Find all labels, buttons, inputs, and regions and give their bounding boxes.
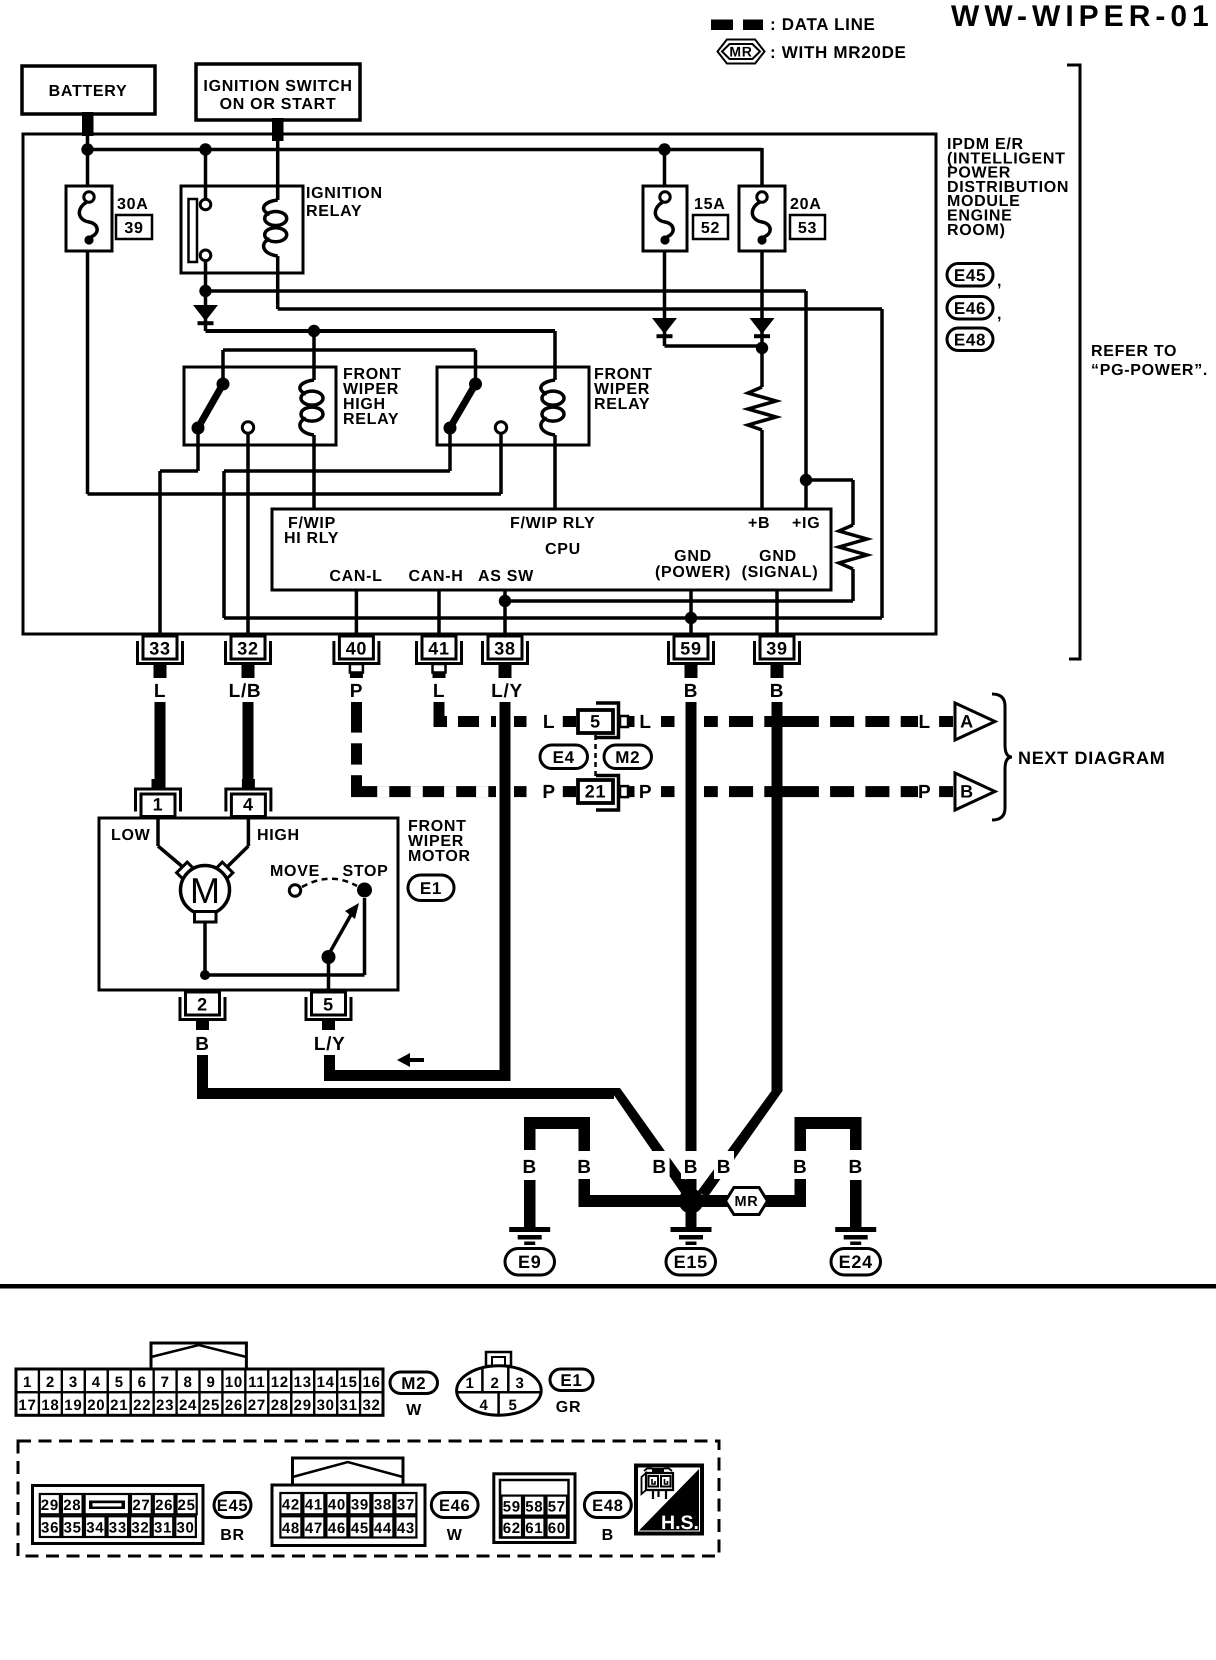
svg-text:5: 5	[115, 1374, 124, 1391]
svg-text:(POWER): (POWER)	[655, 564, 731, 581]
svg-text:P: P	[542, 782, 555, 803]
svg-text:26: 26	[155, 1497, 173, 1514]
motor pin 4 stub	[242, 779, 255, 790]
svg-text:48: 48	[282, 1520, 300, 1537]
svg-text:E15: E15	[674, 1252, 708, 1272]
dashed connector divider	[594, 735, 597, 780]
wire relay switch common bus	[223, 350, 476, 384]
svg-text:NEXT DIAGRAM: NEXT DIAGRAM	[1018, 748, 1165, 768]
IPDM pin 40	[334, 636, 379, 664]
IPDM E/R box	[23, 134, 936, 634]
arrow A to next diagram	[939, 703, 995, 740]
svg-text:B: B	[684, 1157, 698, 1178]
svg-text:4: 4	[243, 795, 254, 815]
svg-text:40: 40	[346, 639, 367, 659]
H.S. mark	[636, 1466, 702, 1535]
svg-text:13: 13	[294, 1374, 312, 1391]
wire E15 stub	[686, 1207, 697, 1227]
svg-text:MOTOR: MOTOR	[408, 848, 471, 865]
svg-text:32: 32	[237, 639, 258, 659]
IPDM pin 33	[138, 636, 183, 664]
motor pin 2	[180, 992, 225, 1020]
fuse 20A	[739, 186, 785, 251]
wire R1 to +B	[760, 430, 764, 510]
svg-text:E46: E46	[439, 1497, 470, 1515]
data line P dash	[514, 786, 527, 797]
svg-text:LOW: LOW	[111, 827, 151, 844]
svg-text:39: 39	[124, 220, 143, 237]
svg-text:P: P	[639, 782, 652, 803]
motor M1	[177, 862, 233, 922]
svg-text:31: 31	[340, 1397, 358, 1414]
front wiper relay label	[594, 366, 653, 413]
svg-text:52: 52	[701, 220, 720, 237]
svg-text:WW-WIPER-01: WW-WIPER-01	[951, 0, 1214, 33]
svg-text:25: 25	[202, 1397, 220, 1414]
wire fuse 15A output	[663, 251, 667, 346]
data line P horizontal	[351, 786, 496, 797]
pin 33 stub	[154, 664, 167, 678]
svg-text:L/B: L/B	[229, 681, 262, 702]
svg-text:39: 39	[766, 639, 787, 659]
svg-text:IGNITION SWITCH: IGNITION SWITCH	[203, 78, 352, 95]
ground E15	[666, 1227, 716, 1275]
wire label P after connector	[639, 782, 652, 803]
connector E4 oval	[540, 745, 588, 769]
svg-text:AS SW: AS SW	[478, 568, 534, 585]
wire B pin39 down	[698, 702, 783, 1198]
node AS SW junction	[499, 595, 511, 607]
svg-text:42: 42	[282, 1497, 300, 1514]
wire label L/Y motor	[314, 1034, 346, 1055]
fuse 20A label	[790, 196, 821, 213]
wire label L/B	[229, 681, 262, 702]
wire label B ground	[790, 1151, 810, 1179]
wire ignition relay contact output	[204, 260, 208, 331]
svg-text:7: 7	[161, 1374, 170, 1391]
svg-text:37: 37	[397, 1497, 415, 1514]
svg-text:B: B	[848, 1157, 862, 1178]
wire label L	[543, 712, 555, 733]
front wiper relay	[437, 367, 589, 445]
wire label B ground	[681, 1151, 701, 1179]
legend with MR20DE text	[770, 43, 907, 62]
data line L dash	[514, 716, 527, 727]
wire L/Y motor pin5	[324, 1055, 505, 1081]
wire front relay NC to ground bus	[224, 434, 882, 618]
svg-text:24: 24	[179, 1397, 197, 1414]
node +B net	[756, 342, 768, 354]
svg-text:IGNITION: IGNITION	[306, 185, 383, 202]
svg-text:+IG: +IG	[792, 515, 820, 532]
wire L/B pin32 to motor pin 4	[243, 702, 254, 790]
ignition relay label	[306, 185, 383, 220]
IPDM pin 41	[417, 636, 462, 664]
svg-text:34: 34	[86, 1520, 104, 1537]
svg-text:23: 23	[156, 1397, 174, 1414]
svg-text:B: B	[602, 1527, 614, 1544]
svg-text:E4: E4	[553, 748, 575, 767]
svg-text:GND: GND	[674, 548, 712, 565]
svg-text:RELAY: RELAY	[343, 411, 399, 428]
arrow B to next diagram	[939, 773, 995, 810]
legend data line text	[770, 15, 876, 34]
connector view M2 grid	[16, 1343, 383, 1415]
svg-text:61: 61	[525, 1520, 543, 1537]
wire label P	[542, 782, 555, 803]
svg-text:17: 17	[18, 1397, 36, 1414]
svg-text:ON OR START: ON OR START	[220, 96, 337, 113]
IPDM pin 59	[669, 636, 714, 664]
svg-text:B: B	[770, 681, 784, 702]
svg-text:1: 1	[153, 795, 164, 815]
front wiper motor label	[408, 818, 471, 865]
wire ignition switch to relay coil	[276, 138, 280, 200]
svg-text:GND: GND	[759, 548, 797, 565]
diode D3	[750, 318, 775, 336]
svg-text:(SIGNAL): (SIGNAL)	[742, 564, 819, 581]
wire label P before arrow B	[918, 782, 931, 803]
svg-text:E45: E45	[954, 266, 986, 285]
park switch dashed arc	[302, 879, 357, 887]
node ground junction	[679, 1189, 704, 1214]
ignition switch stub	[272, 118, 284, 141]
wire B pin59 down to ground junction	[686, 702, 697, 1195]
wire GND POWER to pin 59	[689, 590, 693, 636]
wire label B ground	[714, 1151, 734, 1179]
svg-text:41: 41	[305, 1497, 323, 1514]
svg-text:MR: MR	[735, 1194, 759, 1210]
svg-text:16: 16	[362, 1374, 380, 1391]
node ignition relay branch	[199, 143, 211, 155]
svg-text:45: 45	[351, 1520, 369, 1537]
connector view E1	[456, 1352, 542, 1416]
motor pin 2 stub	[196, 1018, 209, 1030]
svg-text:M2: M2	[615, 748, 640, 767]
svg-text:B: B	[960, 782, 974, 802]
connector E46 label	[431, 1493, 478, 1545]
motor pin 1 stub	[152, 779, 165, 790]
svg-text:29: 29	[41, 1497, 59, 1514]
svg-text:E9: E9	[518, 1252, 541, 1272]
svg-text:41: 41	[428, 639, 449, 659]
node battery bus junction	[81, 143, 93, 155]
svg-text:47: 47	[305, 1520, 323, 1537]
connector E45 label	[214, 1493, 251, 1545]
svg-text:27: 27	[132, 1497, 150, 1514]
wire park switch to pin 5	[327, 957, 331, 992]
svg-text:E46: E46	[954, 299, 986, 318]
wire motor to pin 2 net	[205, 898, 365, 975]
svg-text:30A: 30A	[117, 196, 148, 213]
refer-to bracket	[1067, 65, 1080, 659]
svg-text:20: 20	[87, 1397, 105, 1414]
svg-text:B: B	[684, 681, 698, 702]
svg-text:H.S.: H.S.	[661, 1512, 699, 1534]
svg-text:W: W	[447, 1527, 463, 1544]
connector view E45	[33, 1486, 204, 1544]
svg-text:MR: MR	[729, 44, 752, 60]
svg-text:CAN-L: CAN-L	[329, 568, 382, 585]
node +IG resistor branch	[800, 474, 812, 486]
legend data-line symbol	[711, 20, 763, 31]
svg-text:15A: 15A	[694, 196, 725, 213]
wire label L/Y	[491, 681, 523, 702]
legend MR hexagon	[718, 40, 765, 64]
svg-text:L: L	[543, 712, 555, 733]
svg-text:M: M	[190, 870, 220, 911]
title WW-WIPER-01	[951, 0, 1214, 33]
svg-text:B: B	[717, 1157, 731, 1178]
svg-text:5: 5	[508, 1397, 517, 1414]
IPDM pin 38	[483, 636, 528, 664]
svg-text:B: B	[195, 1034, 209, 1055]
connector view E46	[272, 1458, 425, 1546]
svg-text:HIGH: HIGH	[257, 827, 300, 844]
svg-text:GR: GR	[556, 1399, 581, 1416]
wire L/Y pin38 down	[500, 702, 511, 1081]
data line P stub into connector 21	[563, 786, 576, 797]
svg-text:5: 5	[323, 995, 334, 1015]
connector E48 oval	[947, 328, 993, 351]
motor pin 4	[226, 789, 271, 817]
ignition relay	[181, 186, 303, 273]
wire L pin33 to motor pin 1	[155, 702, 166, 790]
pin 40 data stub	[350, 664, 363, 678]
next diagram brace	[992, 694, 1012, 820]
wire CAN-H to pin 41	[437, 590, 441, 636]
data line L dashes to arrow A	[661, 716, 918, 727]
svg-text:59: 59	[503, 1499, 521, 1516]
svg-text:57: 57	[548, 1499, 566, 1516]
svg-text:L: L	[919, 712, 931, 733]
wire label B ground	[650, 1151, 670, 1179]
svg-text:E48: E48	[954, 330, 986, 349]
svg-text:2: 2	[490, 1375, 499, 1392]
park switch STOP contact	[357, 883, 372, 898]
MOVE STOP labels	[270, 863, 389, 880]
wire ignition relay coil return	[278, 256, 882, 618]
svg-text:E24: E24	[839, 1252, 873, 1272]
svg-text:28: 28	[271, 1397, 289, 1414]
front wiper high relay label	[343, 366, 402, 428]
wire pin4 to motor brush	[226, 816, 248, 868]
svg-text:28: 28	[63, 1497, 81, 1514]
svg-text:A: A	[960, 712, 974, 732]
pin 41 data stub	[433, 664, 446, 678]
svg-text:CPU: CPU	[545, 541, 581, 558]
node GND(POWER) junction	[685, 612, 697, 624]
svg-text:46: 46	[328, 1520, 346, 1537]
svg-text:43: 43	[397, 1520, 415, 1537]
fuse 30A label	[117, 196, 148, 213]
svg-text:3: 3	[69, 1374, 78, 1391]
wire label B	[770, 681, 784, 702]
wire label L after connector	[639, 712, 651, 733]
svg-text:26: 26	[225, 1397, 243, 1414]
svg-text:59: 59	[680, 639, 701, 659]
svg-text:14: 14	[317, 1374, 335, 1391]
wire label B ground	[575, 1151, 595, 1179]
svg-text:44: 44	[374, 1520, 392, 1537]
battery	[22, 66, 155, 114]
svg-text:F/WIP RLY: F/WIP RLY	[510, 515, 595, 532]
ground E24	[831, 1227, 881, 1275]
next diagram text	[1018, 748, 1165, 768]
resistor R2	[839, 525, 867, 569]
ignition switch	[196, 64, 360, 120]
connector E1 label	[550, 1369, 593, 1416]
fuse number 39 box	[116, 215, 152, 239]
svg-text:12: 12	[271, 1374, 289, 1391]
data line P (CAN-L) vertical	[351, 702, 362, 797]
ground E24 branch	[795, 1117, 862, 1229]
resistor R1	[748, 387, 776, 430]
svg-text:4: 4	[92, 1374, 101, 1391]
svg-text:1: 1	[465, 1375, 474, 1392]
diode D1	[193, 305, 218, 323]
wire AS SW to pin 38	[503, 590, 507, 636]
svg-text:31: 31	[154, 1520, 172, 1537]
connector E1 oval	[408, 875, 454, 901]
svg-text:30: 30	[177, 1520, 195, 1537]
connector 5 output stub	[620, 716, 635, 727]
node fuse 15A branch	[658, 143, 670, 155]
node high relay coil branch	[308, 325, 320, 337]
svg-text:RELAY: RELAY	[594, 396, 650, 413]
wire label P	[350, 681, 363, 702]
svg-text:58: 58	[525, 1499, 543, 1516]
node park switch arm	[322, 950, 336, 964]
wire to high relay coil	[312, 331, 316, 380]
svg-text:5: 5	[590, 712, 601, 732]
svg-text:10: 10	[225, 1374, 243, 1391]
separator line	[0, 1284, 1216, 1289]
MR hexagon tag	[726, 1188, 768, 1215]
IPDM pin 39	[755, 636, 800, 664]
connector 21 output stub	[620, 786, 635, 797]
connector 21 pass-through	[578, 776, 619, 811]
svg-text:21: 21	[110, 1397, 128, 1414]
svg-text:BATTERY: BATTERY	[49, 83, 128, 100]
svg-text:11: 11	[248, 1374, 265, 1391]
pin 59 stub	[685, 664, 698, 678]
fuse 30A	[66, 186, 112, 251]
wire B motor pin2 to ground	[197, 1055, 697, 1203]
fuse 15A	[643, 186, 687, 251]
svg-text:B: B	[793, 1157, 807, 1178]
wire battery to fuse 30A	[86, 134, 90, 186]
connector E46 oval	[947, 297, 1002, 324]
wire high relay NO to pin 32	[246, 433, 250, 636]
svg-text:3: 3	[515, 1375, 524, 1392]
motor pin 5 stub	[322, 1018, 335, 1030]
ground E9	[505, 1227, 555, 1275]
connector M2 label	[390, 1372, 438, 1419]
svg-text:E1: E1	[420, 879, 442, 898]
svg-text:MOVE: MOVE	[270, 863, 320, 880]
svg-text:32: 32	[131, 1520, 149, 1537]
data line L stub into connector 5	[563, 716, 576, 727]
svg-text:+B: +B	[748, 515, 770, 532]
svg-text:: DATA LINE: : DATA LINE	[770, 15, 876, 34]
wire R2 to AS SW net	[505, 569, 853, 601]
svg-text:9: 9	[206, 1374, 215, 1391]
IPDM pin 32	[226, 636, 271, 664]
node motor return junction	[200, 970, 210, 980]
wire front relay coil to CPU	[553, 435, 557, 510]
svg-text:20A: 20A	[790, 196, 821, 213]
svg-text:E48: E48	[592, 1497, 623, 1515]
connector 5 pass-through	[578, 703, 619, 738]
wire diode D1 to relay coil bus	[206, 331, 556, 380]
svg-text:P: P	[918, 782, 931, 803]
svg-text:53: 53	[798, 220, 817, 237]
IPDM side label	[947, 136, 1069, 239]
park switch MOVE contact	[289, 885, 300, 896]
wire pin1 to motor brush	[158, 816, 184, 868]
svg-text:38: 38	[374, 1497, 392, 1514]
front wiper motor box	[99, 818, 398, 990]
pin 32 stub	[242, 664, 255, 678]
LOW HIGH labels	[111, 827, 300, 844]
svg-text:L/Y: L/Y	[314, 1034, 346, 1055]
wire label B ground	[846, 1151, 866, 1179]
svg-text:6: 6	[138, 1374, 147, 1391]
svg-text:21: 21	[585, 782, 606, 802]
svg-text:B: B	[522, 1157, 536, 1178]
op-amp U1 CPU box	[272, 509, 831, 590]
svg-text:E1: E1	[560, 1371, 582, 1390]
ground E9 branch	[524, 1117, 590, 1229]
svg-text:L: L	[639, 712, 651, 733]
flow arrow	[397, 1053, 424, 1067]
svg-text:,: ,	[997, 273, 1002, 290]
svg-text:22: 22	[133, 1397, 151, 1414]
wire label L before arrow A	[919, 712, 931, 733]
dashed group box	[18, 1441, 719, 1556]
svg-text:B: B	[652, 1157, 666, 1178]
svg-text:B: B	[577, 1157, 591, 1178]
svg-text:38: 38	[494, 639, 515, 659]
svg-text:40: 40	[328, 1497, 346, 1514]
wire bus to fuse 15A	[663, 150, 667, 187]
connector view E48	[494, 1474, 575, 1543]
svg-text:HI RLY: HI RLY	[284, 530, 339, 547]
svg-text:RELAY: RELAY	[306, 203, 362, 220]
ground bus	[579, 1195, 807, 1207]
wire bus to ignition relay contact	[204, 150, 208, 201]
svg-text:2: 2	[46, 1374, 55, 1391]
svg-text:62: 62	[503, 1520, 521, 1537]
pin 38 stub	[499, 664, 512, 678]
connector M2 oval	[604, 745, 652, 769]
svg-text:ROOM): ROOM)	[947, 222, 1006, 239]
svg-text:32: 32	[362, 1397, 380, 1414]
svg-text:1: 1	[23, 1374, 32, 1391]
svg-text:29: 29	[294, 1397, 312, 1414]
wire +IG branch to R2	[806, 480, 853, 525]
wire high relay NC to pin 33	[160, 434, 198, 636]
battery stub	[82, 112, 94, 136]
data line L (CAN-H)	[434, 702, 497, 727]
node +IG branch	[199, 285, 211, 297]
fuse number 53 box	[790, 215, 825, 239]
svg-text:L/Y: L/Y	[491, 681, 523, 702]
wire CAN-L to pin 40	[355, 590, 359, 636]
svg-text:18: 18	[41, 1397, 59, 1414]
svg-text:P: P	[350, 681, 363, 702]
